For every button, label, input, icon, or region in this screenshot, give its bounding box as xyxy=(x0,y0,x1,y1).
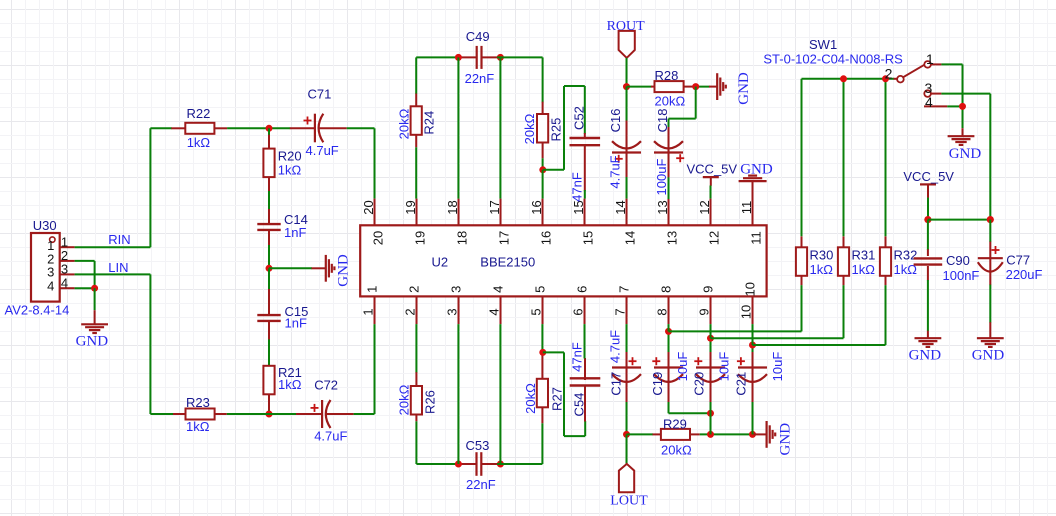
svg-text:20kΩ: 20kΩ xyxy=(523,383,538,414)
U2 pin 20 (top stub) xyxy=(374,199,376,226)
capacitor C18 (polarized) xyxy=(668,127,670,153)
wire pin7 to C17 xyxy=(626,324,628,353)
wire pin9 to R31 xyxy=(711,285,844,338)
U2 pin 11 (top stub) xyxy=(752,199,754,226)
svg-text:LOUT: LOUT xyxy=(610,494,648,509)
wire R20 to C14 xyxy=(268,191,270,210)
wire pin5 to R27 junction xyxy=(541,324,543,352)
wire pin8 node to C19 xyxy=(668,331,670,353)
svg-text:3: 3 xyxy=(61,262,68,277)
svg-text:4.7uF: 4.7uF xyxy=(314,428,347,443)
svg-text:1: 1 xyxy=(364,286,379,293)
U30 pin 3 xyxy=(60,273,75,275)
capacitor C49 xyxy=(460,56,477,58)
U2 pin 8 (bottom stub) xyxy=(668,296,670,324)
svg-text:22nF: 22nF xyxy=(465,71,495,86)
svg-text:C17: C17 xyxy=(609,372,624,396)
wire C15 to R21 xyxy=(268,339,270,366)
wire R29 to GND row xyxy=(700,433,755,435)
svg-text:20kΩ: 20kΩ xyxy=(655,94,686,109)
wire pin8 to R30 xyxy=(669,285,802,331)
svg-text:VCC_5V: VCC_5V xyxy=(903,169,954,184)
U30 pin-1 indicator circle xyxy=(50,237,55,242)
svg-text:C20: C20 xyxy=(692,372,707,396)
wire node down to C90 xyxy=(927,220,929,250)
wire R28 to GND node xyxy=(693,86,709,88)
svg-text:6: 6 xyxy=(571,308,586,315)
resistor R31 xyxy=(843,236,845,247)
capacitor C15 xyxy=(268,289,270,315)
svg-text:14: 14 xyxy=(622,231,637,245)
svg-text:C53: C53 xyxy=(466,438,490,453)
switch SW1 pin 1 contact xyxy=(924,61,931,68)
resistor R26 xyxy=(415,372,417,386)
svg-text:GND: GND xyxy=(336,254,352,287)
resistor R21 xyxy=(268,364,270,367)
wire C72 to U2 pin1 xyxy=(354,324,375,414)
svg-text:4: 4 xyxy=(490,286,505,293)
wire VCC node to C77 node xyxy=(928,219,990,221)
svg-text:3: 3 xyxy=(448,286,463,293)
junction pin9/R31 row xyxy=(707,335,714,342)
wire C49 row left / R24 drop xyxy=(416,57,461,94)
wire SW1 pin3 to VCC node xyxy=(941,94,990,220)
svg-text:22nF: 22nF xyxy=(466,477,496,492)
ground symbol at pin11 (inverted) xyxy=(739,180,767,182)
svg-text:3: 3 xyxy=(47,265,54,280)
svg-text:C18: C18 xyxy=(655,108,670,132)
svg-text:47nF: 47nF xyxy=(570,172,585,202)
svg-text:3: 3 xyxy=(445,308,460,315)
U2 pin 1 (bottom stub) xyxy=(374,296,376,324)
svg-text:20: 20 xyxy=(361,200,376,214)
wire C17 to LOUT junction xyxy=(626,402,628,434)
wire C52 to pin15 xyxy=(584,190,586,199)
svg-text:R31: R31 xyxy=(852,247,876,262)
wire pin2 to R26 xyxy=(415,324,417,373)
wire junction to R29 xyxy=(627,433,654,435)
wire pin3 to C53 row xyxy=(457,324,459,464)
svg-text:C90: C90 xyxy=(946,253,970,268)
wire junction to C52 xyxy=(543,86,585,170)
port LOUT xyxy=(619,464,634,492)
wire C16 to pin14 xyxy=(626,177,628,199)
capacitor C16 (polarized) xyxy=(626,121,628,153)
svg-text:R30: R30 xyxy=(810,247,834,262)
svg-text:12: 12 xyxy=(697,200,712,214)
svg-text:19: 19 xyxy=(412,231,427,245)
capacitor C19 (polarized) xyxy=(668,352,670,368)
svg-text:GND: GND xyxy=(909,347,942,363)
svg-text:4.7uF: 4.7uF xyxy=(608,330,623,363)
svg-text:15: 15 xyxy=(580,231,595,245)
wire C19 to C20 column xyxy=(669,402,711,413)
svg-text:C21: C21 xyxy=(734,372,749,396)
resistor R32 xyxy=(885,236,887,247)
svg-text:1kΩ: 1kΩ xyxy=(187,135,211,150)
wire junction to pin16 xyxy=(542,170,544,199)
resistor R27 xyxy=(541,353,543,379)
svg-text:1kΩ: 1kΩ xyxy=(852,262,876,277)
wire C21 down to GND row xyxy=(752,402,754,434)
wire C49 left junction to pin18 xyxy=(457,57,459,198)
switch SW1 arm xyxy=(903,65,924,77)
capacitor C52 xyxy=(584,133,586,139)
junction VCC/C90 xyxy=(924,216,931,223)
U2 pin 10 (bottom stub) xyxy=(752,296,754,324)
power VCC_5V (right) xyxy=(920,183,936,185)
junction R32 column xyxy=(882,75,889,82)
svg-text:20kΩ: 20kΩ xyxy=(397,108,412,139)
connector U30 body xyxy=(31,233,60,302)
junction C53 left xyxy=(455,461,462,468)
junction R29/C20 xyxy=(707,431,714,438)
U2 pin 12 (top stub) xyxy=(710,199,712,226)
svg-text:10uF: 10uF xyxy=(770,352,785,382)
svg-text:12: 12 xyxy=(706,231,721,245)
wire C77 to GND xyxy=(989,285,991,323)
svg-text:R20: R20 xyxy=(278,148,302,163)
svg-text:GND: GND xyxy=(972,347,1005,363)
svg-text:5: 5 xyxy=(529,308,544,315)
svg-text:1kΩ: 1kΩ xyxy=(186,419,210,434)
U2 pin 9 (bottom stub) xyxy=(710,296,712,324)
resistor R28 xyxy=(651,86,655,88)
svg-text:9: 9 xyxy=(700,286,715,293)
capacitor C71 (polarized) xyxy=(290,127,315,129)
svg-text:4.7uF: 4.7uF xyxy=(608,155,623,188)
svg-text:220uF: 220uF xyxy=(1006,267,1043,282)
svg-text:10: 10 xyxy=(739,305,754,319)
U2 pin 16 (top stub) xyxy=(542,199,544,226)
wire R25 to junction xyxy=(542,158,544,170)
svg-text:4: 4 xyxy=(61,275,68,290)
U2 pin 3 (bottom stub) xyxy=(458,296,460,324)
svg-text:7: 7 xyxy=(613,308,628,315)
wire pin10 to R32 xyxy=(753,285,886,345)
svg-text:R32: R32 xyxy=(894,247,918,262)
wire C18 from R28 junction xyxy=(669,87,696,128)
wire node to mid ground xyxy=(269,267,312,269)
svg-text:20: 20 xyxy=(370,231,385,245)
wire VCC to pin12 xyxy=(710,186,712,199)
junction C53 right xyxy=(497,461,504,468)
junction pin8/R30 row xyxy=(665,328,672,335)
capacitor C53 xyxy=(460,463,477,465)
svg-text:R22: R22 xyxy=(187,106,211,121)
svg-text:C77: C77 xyxy=(1006,253,1030,268)
junction ROUT/C16/R28 xyxy=(623,83,630,90)
ground symbol right of R29 xyxy=(754,433,768,435)
svg-text:16: 16 xyxy=(529,200,544,214)
ground symbol below U30 xyxy=(94,310,96,324)
junction C77 column xyxy=(987,216,994,223)
wire U30 pin2 down to pin4 node xyxy=(75,261,95,288)
junction R31 column xyxy=(840,75,847,82)
wire R22 to junction xyxy=(227,127,290,129)
wire pin4 to C53 row xyxy=(499,324,501,464)
capacitor C17 (polarized) xyxy=(626,352,628,368)
svg-text:C54: C54 xyxy=(572,393,587,417)
U30 pin 1 xyxy=(60,246,75,248)
svg-text:R28: R28 xyxy=(655,68,679,83)
svg-text:GND: GND xyxy=(949,146,982,162)
junction at U30 pin4 xyxy=(91,285,98,292)
power VCC_5V at pin12 xyxy=(703,176,719,178)
capacitor C90 xyxy=(927,249,929,256)
svg-text:1nF: 1nF xyxy=(285,316,307,331)
svg-text:4.7uF: 4.7uF xyxy=(306,143,339,158)
svg-text:U30: U30 xyxy=(33,218,57,233)
wire pin10 node to C21 xyxy=(752,345,754,353)
wire C18 to pin13 xyxy=(668,177,670,199)
wire R26 to C53 row xyxy=(416,421,461,464)
svg-text:1nF: 1nF xyxy=(284,225,306,240)
svg-text:47nF: 47nF xyxy=(570,342,585,372)
svg-text:4: 4 xyxy=(47,278,54,293)
svg-text:1kΩ: 1kΩ xyxy=(810,262,834,277)
svg-text:R23: R23 xyxy=(186,395,210,410)
svg-text:C71: C71 xyxy=(308,86,332,101)
junction C19/C20 xyxy=(707,410,714,417)
junction C21/GND xyxy=(749,431,756,438)
svg-text:10: 10 xyxy=(742,282,757,296)
svg-text:GND: GND xyxy=(740,161,773,177)
wire C49 row right xyxy=(497,57,543,102)
U2 pin 19 (top stub) xyxy=(416,199,418,226)
capacitor C77 (polarized) xyxy=(989,242,991,259)
wire C53 row to R27 xyxy=(497,423,542,464)
capacitor C72 (polarized) xyxy=(296,413,322,415)
U2 pin 2 (bottom stub) xyxy=(416,296,418,324)
wire junction down to C16 xyxy=(626,87,628,121)
capacitor C21 (polarized) xyxy=(752,352,754,368)
wire node down to C15 xyxy=(268,268,270,290)
junction C49 left xyxy=(455,54,462,61)
U2 pin 5 (bottom stub) xyxy=(542,296,544,324)
junction R21/R23/C72 xyxy=(266,411,273,418)
U2 pin 13 (top stub) xyxy=(668,199,670,226)
switch SW1 pin 4 xyxy=(924,105,947,107)
svg-text:7: 7 xyxy=(616,286,631,293)
svg-text:11: 11 xyxy=(748,231,763,245)
ground symbol right of R28 xyxy=(709,86,718,88)
wire ROUT down xyxy=(626,58,628,87)
junction R25/C52/pin16 xyxy=(539,166,546,173)
wire C49 right junction to pin17 xyxy=(499,57,501,198)
svg-text:R25: R25 xyxy=(549,118,564,142)
resistor R20 xyxy=(268,135,270,149)
wire junction down to R20 xyxy=(268,128,270,136)
wire C71 to U2 pin20 xyxy=(347,128,375,198)
svg-text:9: 9 xyxy=(697,308,712,315)
junction R27/C54/pin5 xyxy=(539,349,546,356)
wire R21 to junction xyxy=(268,410,270,414)
svg-text:C19: C19 xyxy=(650,372,665,396)
svg-text:8: 8 xyxy=(655,308,670,315)
U2 pin 4 (bottom stub) xyxy=(500,296,502,324)
resistor R29 xyxy=(653,433,661,435)
ground symbol below C90 xyxy=(927,331,929,339)
resistor R23 xyxy=(173,413,186,415)
wire SW1 common row xyxy=(802,79,895,237)
svg-text:LIN: LIN xyxy=(108,260,128,275)
svg-text:ST-0-102-C04-N008-RS: ST-0-102-C04-N008-RS xyxy=(763,52,903,67)
resistor R22 xyxy=(171,127,185,129)
resistor R30 xyxy=(801,236,803,247)
U2 pin 14 (top stub) xyxy=(626,199,628,226)
wire LIN: U30 pin3 to R23 xyxy=(75,274,174,414)
wire node down to C77 xyxy=(989,220,991,243)
svg-text:19: 19 xyxy=(403,200,418,214)
svg-text:1kΩ: 1kΩ xyxy=(278,163,302,178)
U30 pin 4 xyxy=(60,287,75,289)
svg-text:GND: GND xyxy=(76,334,109,350)
svg-text:18: 18 xyxy=(445,200,460,214)
wire SW1 pin1 down xyxy=(941,64,962,106)
svg-text:6: 6 xyxy=(574,286,589,293)
U2 pin 6 (bottom stub) xyxy=(584,296,586,324)
wire junction to C54 xyxy=(543,352,585,436)
U2 pin 7 (bottom stub) xyxy=(626,296,628,324)
svg-text:4: 4 xyxy=(487,308,502,315)
svg-text:RIN: RIN xyxy=(108,232,130,247)
capacitor C14 xyxy=(268,209,270,224)
svg-text:8: 8 xyxy=(658,286,673,293)
IC U2 body xyxy=(360,225,766,296)
svg-text:1: 1 xyxy=(926,51,934,67)
wire C20 down to R29 row xyxy=(710,402,712,434)
wire C90 to GND xyxy=(927,280,929,331)
wire junction to C72 xyxy=(269,413,297,415)
svg-text:16: 16 xyxy=(538,231,553,245)
svg-text:100uF: 100uF xyxy=(654,159,669,196)
svg-text:20kΩ: 20kΩ xyxy=(522,113,537,144)
U2 pin 15 (top stub) xyxy=(584,199,586,226)
svg-text:R26: R26 xyxy=(423,390,438,414)
junction pin10/R32 row xyxy=(749,342,756,349)
svg-text:GND: GND xyxy=(736,72,752,105)
svg-text:2: 2 xyxy=(885,65,893,81)
wire pin9 node to C20 xyxy=(710,338,712,353)
resistor R25 xyxy=(542,102,544,114)
junction C17/R29/LOUT xyxy=(623,431,630,438)
wire R24 to pin19 xyxy=(415,147,417,198)
svg-text:C16: C16 xyxy=(608,108,623,132)
svg-text:C72: C72 xyxy=(314,377,338,392)
junction SW1 pins 1/4 xyxy=(959,103,966,110)
svg-text:1: 1 xyxy=(361,308,376,315)
capacitor C20 (polarized) xyxy=(710,352,712,368)
svg-text:R27: R27 xyxy=(550,387,565,411)
svg-text:11: 11 xyxy=(739,201,754,215)
svg-text:10uF: 10uF xyxy=(717,352,732,382)
wire U30 pin4 to node xyxy=(75,287,96,289)
wire R23 to junction xyxy=(227,413,269,415)
svg-text:13: 13 xyxy=(655,200,670,214)
svg-text:SW1: SW1 xyxy=(809,37,837,52)
junction C49 right xyxy=(497,54,504,61)
junction C14/C15/GND xyxy=(266,265,273,272)
svg-text:C49: C49 xyxy=(466,29,490,44)
U2 pin 18 (top stub) xyxy=(458,199,460,226)
svg-text:14: 14 xyxy=(613,200,628,214)
svg-text:1kΩ: 1kΩ xyxy=(278,377,302,392)
svg-text:10uF: 10uF xyxy=(675,352,690,382)
junction R22/R20/C71 xyxy=(266,125,273,132)
svg-text:20kΩ: 20kΩ xyxy=(397,384,412,415)
svg-text:18: 18 xyxy=(454,231,469,245)
wire junction down to LOUT xyxy=(626,434,628,464)
svg-text:4: 4 xyxy=(925,94,933,110)
ground symbol below SW1 xyxy=(962,128,964,136)
wire C14 to mid node xyxy=(268,245,270,268)
switch SW1 pin 2 contact xyxy=(894,78,898,80)
switch SW1 pin 3 contact xyxy=(924,90,931,97)
wire C54 to pin6 xyxy=(584,324,586,358)
svg-text:5: 5 xyxy=(532,286,547,293)
svg-text:R29: R29 xyxy=(663,417,687,432)
U2 pin 17 (top stub) xyxy=(500,199,502,226)
svg-text:R24: R24 xyxy=(421,111,436,135)
svg-text:17: 17 xyxy=(487,200,502,214)
U30 pin 2 xyxy=(60,260,75,262)
svg-text:13: 13 xyxy=(664,231,679,245)
ground symbol (mid, pointing right) xyxy=(312,267,327,269)
svg-text:2: 2 xyxy=(406,286,421,293)
svg-text:100nF: 100nF xyxy=(943,268,980,283)
resistor R24 xyxy=(415,94,417,107)
wire node down to GND xyxy=(94,288,96,310)
wire VCC down to node xyxy=(927,198,929,220)
ground symbol below C77 xyxy=(989,322,991,338)
svg-text:GND: GND xyxy=(777,423,793,456)
port ROUT xyxy=(619,31,635,58)
svg-text:2: 2 xyxy=(403,308,418,315)
capacitor C54 xyxy=(584,358,586,380)
svg-text:VCC_5V: VCC_5V xyxy=(687,162,738,177)
svg-text:U2: U2 xyxy=(432,254,449,269)
wire junction to R28 xyxy=(627,86,652,88)
svg-text:C52: C52 xyxy=(572,106,587,130)
junction R28/C18 xyxy=(692,83,699,90)
svg-text:20kΩ: 20kΩ xyxy=(661,443,692,458)
svg-text:BBE2150: BBE2150 xyxy=(480,254,535,269)
svg-text:ROUT: ROUT xyxy=(607,19,646,34)
wire SW1 pin4 node xyxy=(947,106,962,128)
wire RIN: U30 pin1 to R22 xyxy=(75,128,172,247)
svg-text:17: 17 xyxy=(496,231,511,245)
svg-text:AV2-8.4-14: AV2-8.4-14 xyxy=(5,302,70,317)
